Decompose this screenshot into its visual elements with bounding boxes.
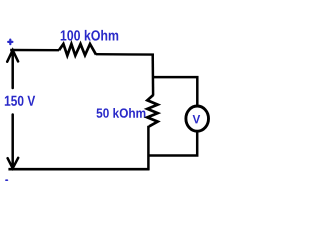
label 150 V <box>5 96 35 106</box>
wire branch to voltmeter top <box>153 77 198 105</box>
wire bottom horizontal <box>8 168 149 171</box>
wire branch to voltmeter bottom <box>148 132 197 156</box>
wire right vertical <box>151 54 154 96</box>
voltmeter U1 circle <box>186 106 209 131</box>
label 50 kOhm <box>97 108 146 118</box>
label 100 kOhm <box>61 30 118 41</box>
node plus terminal label <box>8 40 12 45</box>
wire top-left horizontal <box>10 49 59 52</box>
voltage source arrow upper segment with up arrowhead <box>7 50 18 88</box>
wire resistor bottom lead <box>147 126 150 170</box>
resistor R2 50 kOhm <box>147 95 157 126</box>
wire top-right horizontal <box>96 53 154 56</box>
node minus terminal label <box>6 179 8 181</box>
voltage source arrow lower segment with down arrowhead <box>8 115 19 169</box>
voltmeter V label <box>193 115 201 123</box>
resistor R1 100 kOhm <box>59 44 96 56</box>
